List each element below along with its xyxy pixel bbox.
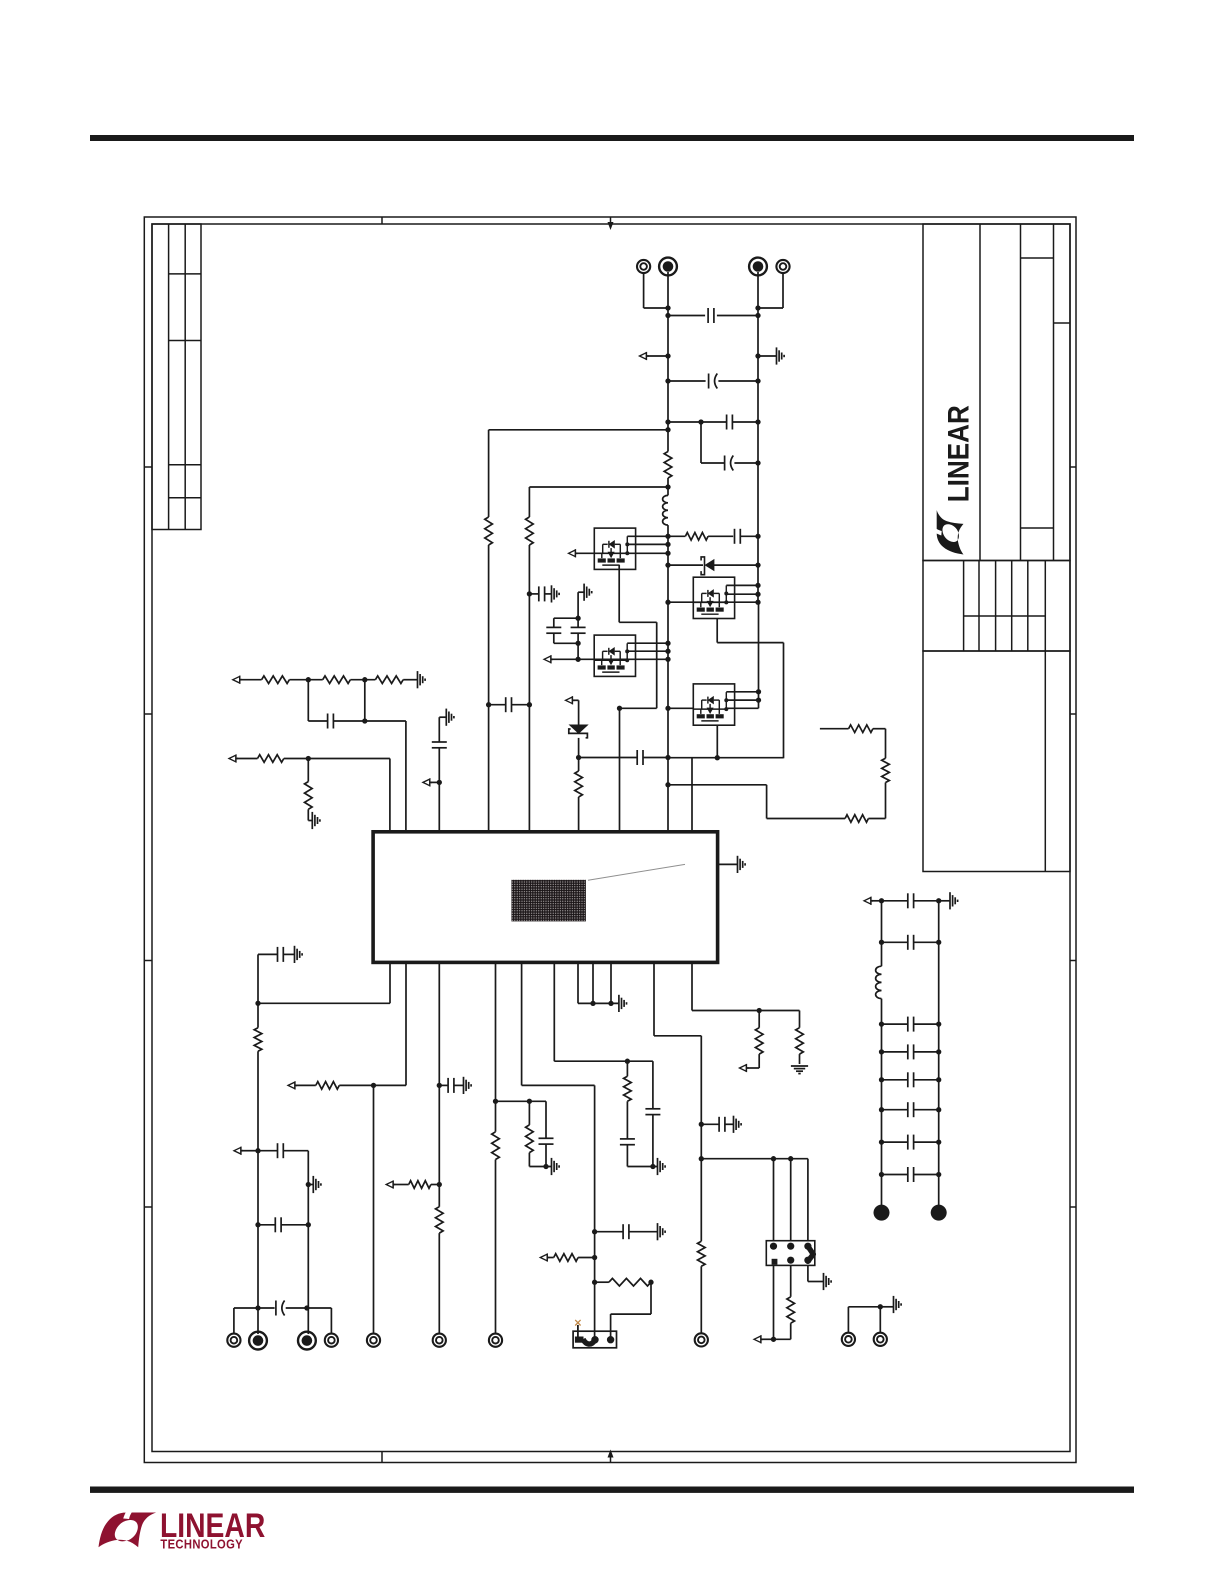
wire RS row a	[820, 728, 849, 730]
junction mode res b	[648, 1280, 653, 1285]
freq gnd elbow v	[438, 717, 440, 742]
capacitor C27	[908, 1102, 914, 1117]
jumper JP1 outline	[573, 1331, 616, 1348]
fb top cap riser	[257, 954, 259, 1003]
junction VIN stub	[665, 353, 670, 358]
junction hdr row	[699, 1156, 704, 1161]
wire ladder row 6 a	[882, 1141, 908, 1143]
junction mode res	[592, 1280, 597, 1285]
resistor R13	[409, 1181, 431, 1189]
hdr bottom drop a	[773, 1265, 775, 1339]
wire extvcc stub	[762, 1338, 774, 1340]
title block lower box	[923, 651, 1070, 872]
junction D1 left	[665, 562, 670, 567]
IC U1 exposed-pad ground wire	[718, 863, 738, 865]
gate cap A bottom	[553, 633, 555, 643]
net arrow RUN	[288, 1081, 297, 1089]
fb chain lower	[257, 1051, 259, 1334]
junction ladder row 7 right	[936, 1172, 941, 1177]
IC pin drop x495	[495, 962, 497, 1131]
Q2 source drop 2	[783, 643, 785, 759]
ground (input)	[777, 347, 785, 364]
wire C4 row left	[701, 462, 725, 464]
resistor R1	[685, 533, 708, 541]
junction hdr bottom	[771, 1337, 776, 1342]
junction Q1 low	[665, 551, 670, 556]
junction ladder row 3 left	[879, 1049, 884, 1054]
resistor RA (on VIN rail)	[664, 452, 672, 479]
resistor R5	[845, 815, 868, 823]
junction ladder tr	[936, 898, 941, 903]
junction C3 mid	[698, 419, 703, 424]
junction Q1 mid	[665, 542, 670, 547]
jumper JP1 pin 1	[591, 1336, 598, 1343]
IC pin drop x554	[553, 962, 555, 1061]
fb branch drop	[307, 1151, 309, 1334]
Q1 source drop	[618, 565, 620, 622]
IC U1 thermal pad hatch	[511, 880, 586, 922]
IC pin feed x620	[619, 708, 621, 832]
wire GND stub	[758, 355, 777, 357]
junction ladder row 2 left	[879, 1021, 884, 1026]
ground (gate network)	[584, 584, 592, 601]
header JP2 outline	[766, 1241, 815, 1266]
mode column	[594, 1085, 596, 1337]
Q1 drain stub top	[627, 535, 668, 537]
comp branch drop	[307, 680, 309, 721]
net arrow VFB	[234, 1147, 243, 1155]
Q4 source drop	[716, 725, 718, 758]
VIN rail upper	[667, 272, 669, 452]
junction Q3 top	[665, 641, 670, 646]
aux gnd stem	[880, 1306, 893, 1308]
capacitor C22	[908, 893, 914, 908]
wire C2 row right	[718, 380, 758, 382]
junction fb c14 l	[255, 1222, 260, 1227]
IC pin drop x439	[438, 962, 440, 1206]
IC pin drop x593	[592, 962, 594, 1003]
Q1 gate rail through	[594, 552, 668, 554]
vprog row	[496, 1100, 547, 1102]
header JP2 pin 2 (square)	[772, 1259, 778, 1265]
wire RC row b	[708, 535, 733, 537]
resistor R7	[323, 676, 351, 684]
resistor R14	[436, 1207, 444, 1233]
resistor R10	[305, 782, 313, 810]
wire C3 row left	[668, 421, 727, 423]
junction hdr b	[788, 1156, 793, 1161]
gate caps bottom link	[554, 642, 578, 644]
wire E4 down	[782, 273, 784, 308]
junction C2 left	[665, 378, 670, 383]
wire D1 left	[668, 564, 703, 566]
E8 riser	[330, 1308, 332, 1334]
VOS divider drop	[307, 759, 309, 782]
junction sw1 cap	[527, 591, 532, 596]
title block strip column 5	[1027, 561, 1029, 652]
terminal E16 (ladder right pad)	[931, 1205, 947, 1221]
wire ladder row 5 a	[882, 1109, 908, 1111]
IC pin feed x406 top	[405, 721, 407, 832]
capacitor C5	[735, 529, 741, 544]
junction ITH1	[306, 677, 311, 682]
net arrow ITH	[233, 676, 242, 684]
IC pin drop x654	[653, 962, 655, 1035]
ground (mode cap)	[658, 1223, 666, 1240]
Q4 right low stub	[726, 707, 758, 709]
zener top wire	[578, 700, 580, 725]
Q3 gate rail through	[594, 658, 668, 660]
ladder right rail	[938, 901, 940, 1206]
title block strip column 3	[995, 561, 997, 652]
resistor R19	[755, 1028, 763, 1054]
RUN terminal drop	[373, 1085, 375, 1334]
junction fb arrow	[255, 1148, 260, 1153]
net arrow VOUT ladder	[864, 897, 873, 905]
header JP2 pin 5	[804, 1243, 811, 1250]
border centre arrow bottom	[608, 1450, 614, 1463]
wire fb cap b	[283, 953, 294, 955]
SW2 rail	[668, 757, 784, 759]
hdr r drop	[790, 1323, 792, 1339]
terminal E5	[227, 1334, 240, 1347]
Q2 gate rail through	[668, 601, 758, 603]
capacitor C26	[908, 1072, 914, 1087]
header JP2 pin 1	[770, 1243, 777, 1250]
Q2 source drop	[716, 619, 718, 643]
jumper JP1 pad stub	[577, 1325, 579, 1337]
junction boost1	[665, 427, 670, 432]
IC U1 pad leader line	[588, 864, 685, 880]
gate cap B bottom	[577, 633, 579, 643]
wire RS row c	[868, 818, 885, 820]
junction fb c14 r	[306, 1222, 311, 1227]
border tick left 3	[144, 960, 152, 962]
wire vout cap a	[258, 1307, 275, 1309]
GND rail	[757, 272, 759, 602]
header JP2 pin 3	[787, 1243, 794, 1250]
ground (pll cap)	[734, 1116, 742, 1133]
IC U1 outline	[373, 832, 717, 963]
resistor R18	[624, 1076, 632, 1101]
r16 drop	[528, 1101, 530, 1125]
capacitor C8	[539, 586, 545, 601]
wire c15 a	[439, 1084, 448, 1086]
wire E4 to GND rail	[758, 307, 783, 309]
junction sw1	[665, 484, 670, 489]
hdr gnd drop	[807, 1265, 809, 1281]
diode D1 (schottky)	[705, 560, 714, 571]
revision table row line 2	[169, 340, 201, 342]
revision table column line 2	[184, 224, 186, 530]
resistor R17	[609, 1278, 651, 1286]
junction Q4 mid	[756, 697, 761, 702]
jumper JP1 pin 2	[607, 1336, 614, 1343]
terminal E14	[874, 1333, 887, 1346]
svg-text:LINEAR: LINEAR	[942, 405, 975, 502]
mode res drop	[650, 1282, 652, 1314]
resistor R15	[492, 1132, 500, 1160]
gate network stem	[578, 591, 584, 593]
terminal E7 (VOUT GND)	[298, 1332, 316, 1350]
wire mode cap b	[629, 1231, 658, 1233]
revision table row line 3	[169, 464, 201, 466]
pgood row	[692, 1010, 800, 1012]
border tick left 4	[144, 1206, 152, 1208]
capacitor C28	[908, 1135, 914, 1150]
RS vertical c	[766, 785, 768, 819]
E5 riser	[233, 1308, 235, 1334]
wire TG1 gate	[577, 552, 595, 554]
revision table row line 4	[169, 497, 201, 499]
ith row	[554, 1060, 653, 1062]
gate cap A top	[553, 618, 555, 627]
IC pin drop x691	[691, 962, 693, 1010]
junction ith gnd	[650, 1164, 655, 1169]
wire ladder row 2 b	[914, 1023, 939, 1025]
Q3 drain stub top	[627, 642, 668, 644]
junction SW2 node	[715, 755, 720, 760]
wire ITH b	[289, 679, 322, 681]
terminal E12	[695, 1333, 708, 1346]
junction gate caps bottom	[575, 641, 580, 646]
ground (IC exposed pad)	[738, 856, 746, 873]
terminal E8	[325, 1334, 338, 1347]
junction ladder row 7 left	[879, 1172, 884, 1177]
wire RS row b	[873, 728, 886, 730]
wire fb c14 b	[281, 1224, 308, 1226]
inductor L1 (on VIN rail)	[663, 495, 668, 525]
junction vout sense a	[255, 1305, 260, 1310]
E12 riser	[700, 1266, 702, 1333]
net arrow VOSENSE	[229, 755, 238, 763]
IC pin feed x692	[691, 758, 693, 832]
ground (signal)	[619, 995, 627, 1012]
wire ladder row 3 b	[914, 1051, 939, 1053]
junction sgnd b	[608, 1001, 613, 1006]
Q3 drain stub mid	[627, 650, 668, 652]
wire ladder row 4 b	[914, 1079, 939, 1081]
sw1 vertical lower	[528, 545, 530, 832]
net arrow EXTVCC	[754, 1335, 763, 1343]
c16 tail	[545, 1144, 547, 1166]
gate network vertical	[577, 592, 579, 618]
junction pgood	[757, 1008, 762, 1013]
mode res elbow	[611, 1313, 651, 1315]
comp link vertical	[364, 680, 366, 721]
junction boost cap left	[486, 702, 491, 707]
junction ITH2	[362, 677, 367, 682]
capacitor C1	[708, 308, 714, 323]
border tick right 2	[1070, 713, 1076, 715]
hdr drop b	[790, 1159, 792, 1241]
resistor R11	[254, 1028, 262, 1052]
pll elbow	[654, 1035, 701, 1037]
ladder gnd stub	[939, 900, 950, 902]
inductor L2 (ladder)	[876, 966, 882, 998]
wire fb c13 a	[258, 1150, 278, 1152]
ladder top stub	[872, 900, 882, 902]
fb chain mid	[257, 1003, 259, 1027]
pgood r drop a	[758, 1011, 760, 1028]
ground (fb cap)	[295, 946, 303, 963]
ground (fb divider)	[313, 1176, 321, 1193]
wire ladder row 1 b	[914, 941, 939, 943]
junction r13	[437, 1182, 442, 1187]
capacitor C9	[637, 750, 643, 765]
wire C9 row a	[579, 757, 638, 759]
junction freq arrow	[437, 780, 442, 785]
r15 tail	[495, 1160, 497, 1335]
junction VIN rail / E1	[665, 305, 670, 310]
resistor R20	[796, 1028, 804, 1054]
capacitor C15	[448, 1078, 454, 1093]
gate cap B top	[577, 618, 579, 627]
junction ladder row 5 right	[936, 1107, 941, 1112]
E14 riser	[879, 1307, 881, 1333]
boost1 vertical lower	[488, 545, 490, 832]
capacitor C20	[645, 1109, 660, 1115]
wire c15 b	[454, 1084, 464, 1086]
R2 bottom wire	[578, 797, 580, 832]
border tick left 2	[144, 713, 152, 715]
junction C9 right	[665, 755, 670, 760]
border tick bottom	[381, 1452, 383, 1463]
terminal E2 (VIN)	[659, 258, 677, 276]
freq gnd elbow h	[439, 716, 446, 718]
junction zener/cap	[576, 755, 581, 760]
title block mid strip outline	[923, 561, 1070, 652]
junction Q3 low	[665, 657, 670, 662]
extra IC link row	[668, 784, 767, 786]
wire boost1 row	[489, 429, 668, 431]
net arrow PLLIN	[386, 1181, 395, 1189]
title block column line 1	[979, 224, 981, 561]
Q2 source elbow	[717, 642, 783, 644]
junction ladder row 4 left	[879, 1077, 884, 1082]
junction GND stub	[755, 353, 760, 358]
border tick left 1	[144, 466, 152, 468]
terminal E1 (VIN sense)	[637, 260, 650, 273]
revision table column line 1	[168, 224, 170, 530]
junction C1 right	[755, 313, 760, 318]
Q1 drain stub mid	[627, 543, 668, 545]
capacitor C7	[571, 627, 586, 633]
wire fb cap a	[258, 953, 278, 955]
wire C3/C4 link	[700, 422, 702, 463]
mode row	[522, 1084, 595, 1086]
junction vprog	[493, 1099, 498, 1104]
E13 riser	[847, 1307, 849, 1333]
border tick right 4	[1070, 1206, 1076, 1208]
title block column line 2	[1020, 224, 1022, 561]
ground (header)	[824, 1273, 832, 1290]
net arrow VIN stub	[640, 352, 649, 360]
junction Q2 mid	[755, 592, 760, 597]
junction ith row	[625, 1059, 630, 1064]
junction fb row	[255, 1001, 260, 1006]
jumper JP1 square pad	[575, 1337, 584, 1343]
junction pll cap	[699, 1122, 704, 1127]
junction extra link	[665, 782, 670, 787]
junction vprog gnd	[543, 1164, 548, 1169]
junction C4 right	[755, 460, 760, 465]
mode res drop 2	[610, 1314, 612, 1337]
capacitor C13	[278, 1143, 284, 1158]
resistor R16	[526, 1125, 534, 1153]
wire comp b	[333, 720, 364, 722]
title block row a	[1021, 257, 1054, 259]
wire C1 row right	[717, 315, 758, 317]
wire INTVCC stub	[574, 699, 579, 701]
hdr bottom row	[774, 1338, 791, 1340]
junction ladder row 4 right	[936, 1077, 941, 1082]
wire r13 b	[431, 1184, 439, 1186]
boost1 vertical upper	[488, 430, 490, 517]
capacitor C16	[539, 1138, 554, 1144]
capacitor C17	[623, 1224, 629, 1239]
VIN rail mid	[667, 478, 669, 495]
junction SW1 node	[617, 706, 622, 711]
junction ladder row 3 right	[936, 1049, 941, 1054]
Q4 gate stub	[668, 707, 693, 709]
header JP2 pin 6	[804, 1257, 811, 1264]
junction RC right	[755, 534, 760, 539]
junction Q4 top	[756, 689, 761, 694]
wire RC row a	[668, 535, 685, 537]
junction comp	[362, 718, 367, 723]
wire BG1	[552, 658, 594, 660]
wire pll cap b	[725, 1123, 734, 1125]
capacitor C23	[908, 935, 914, 950]
junction ladder row 5 left	[879, 1107, 884, 1112]
IC pin drop x578	[577, 962, 579, 1003]
R2 top wire	[578, 758, 580, 772]
IC pin drop x406	[405, 962, 407, 1085]
VOS divider tail	[307, 809, 309, 820]
capacitor C3	[727, 415, 733, 430]
title block strip column 1	[963, 561, 965, 652]
capacitor C19	[620, 1139, 635, 1145]
terminal E4 (GND sense)	[776, 260, 789, 273]
VIN rail lower	[667, 525, 669, 832]
transistor Q1	[594, 528, 635, 569]
wire ITH d	[403, 679, 417, 681]
wire C1 row left	[668, 315, 705, 317]
junction ladder row 1 left	[879, 940, 884, 945]
hdr gnd row	[808, 1281, 824, 1283]
E13 link	[848, 1306, 880, 1308]
wire D1 right	[714, 564, 758, 566]
junction ladder tl	[879, 898, 884, 903]
sw1 vertical upper	[528, 487, 530, 517]
resistor R22	[698, 1241, 706, 1266]
junction mode cap	[592, 1229, 597, 1234]
wire comp c	[365, 720, 406, 722]
title block strip column 6	[1044, 561, 1046, 652]
inner border frame	[152, 224, 1070, 1452]
ground (ITH chain)	[418, 671, 426, 688]
terminal E10	[433, 1334, 446, 1347]
gate network lower	[577, 643, 579, 659]
pgood r2 tail	[799, 1054, 801, 1064]
IC pin drop x390	[389, 962, 391, 1003]
ground (divider)	[312, 812, 320, 829]
ground (sw1 cap)	[552, 585, 560, 602]
wire pll cap a	[701, 1123, 719, 1125]
vprog gnd row	[529, 1166, 551, 1168]
wire C3 row right	[732, 421, 758, 423]
